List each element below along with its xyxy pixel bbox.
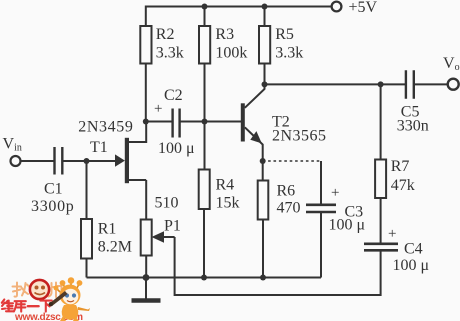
svg-text:3.3k: 3.3k [275,45,303,62]
svg-text:100 μ: 100 μ [393,257,430,274]
capacitor C2 [173,109,180,138]
wire R5 bottom lead to collector node [264,64,266,85]
label R4 value [216,176,240,211]
svg-text:100 μ: 100 μ [158,140,195,157]
label R3 value [215,26,247,62]
label +5V [349,0,378,16]
svg-text:+: + [388,226,396,242]
label C2 value [154,87,195,157]
svg-text:470: 470 [277,200,301,217]
terminal +5V [332,2,342,12]
svg-text:C2: C2 [164,87,183,104]
node R6 lower rail [260,275,266,281]
label R1 value [98,221,132,256]
svg-text:C4: C4 [404,241,423,258]
wire R3 top lead [204,7,206,26]
svg-text:47k: 47k [391,177,415,194]
label Vin [3,136,22,154]
svg-text:R5: R5 [275,26,294,43]
node top rail R3 [202,4,208,10]
node C2/R3/base [202,119,208,125]
label T1 2N3459 [78,119,133,157]
ground [132,278,161,301]
label C1 value [31,181,75,216]
svg-text:R4: R4 [216,176,235,193]
resistor R2 [140,26,151,64]
svg-text:T1: T1 [90,139,108,156]
node top rail R5 [262,4,268,10]
potentiometer P1 [141,220,152,256]
capacitor C5 [406,70,414,98]
svg-text:R6: R6 [277,183,296,200]
wire Vin to C1 [21,160,55,162]
wire lower ground rail [87,277,322,279]
wire R5 top lead [264,7,266,26]
wire R1 bottom lead [86,259,88,278]
wire R6 top lead [262,161,264,181]
wire C3 bottom lead [320,213,322,278]
svg-text:8.2M: 8.2M [98,239,132,256]
resistor R6 [258,181,269,220]
label R6 value [277,183,301,217]
wire C4 bottom to lower rail [175,237,381,295]
svg-text:2N3459: 2N3459 [78,119,133,136]
label R2 value [156,26,184,62]
label R5 value [275,26,303,62]
label Vo [443,55,460,73]
svg-text:330n: 330n [397,118,429,135]
node drain/R2/C2 [143,119,149,125]
resistor R1 [81,219,92,259]
wire T2 emitter node dashed to C3 [263,160,321,162]
svg-text:R7: R7 [391,158,410,175]
svg-text:+: + [154,101,162,117]
transistor T1 2N3459 JFET [115,122,146,184]
terminal Vo [448,79,459,90]
watermark dzsc.com logo [0,274,140,321]
node ground junction [143,274,150,281]
resistor R7 [375,160,386,199]
transistor T2 2N3565 [241,84,265,161]
resistor R3 [199,26,210,64]
svg-text:R1: R1 [98,221,117,238]
label C5 value [397,103,429,134]
wire R6 bottom lead [262,220,264,278]
label R7 value [391,158,415,194]
wire C5 to Vo [414,83,448,85]
capacitor C1 [55,147,63,175]
svg-text:Vin: Vin [3,136,22,154]
wire P1 top lead from T1 source [145,180,147,220]
wire C3 top lead [320,161,322,205]
wire R4 bottom lead [203,209,205,278]
wire gate line [63,160,117,162]
svg-text:C1: C1 [44,181,63,198]
wire collector line to C5 [265,83,406,85]
svg-text:510: 510 [155,195,179,212]
capacitor C4 [364,244,398,251]
svg-text:R3: R3 [215,26,234,43]
svg-text:100k: 100k [215,45,247,62]
svg-text:3.3k: 3.3k [156,45,184,62]
label T2 2N3565 [272,114,327,145]
wire R7 branch down [380,84,382,159]
node collector/R5 [262,81,268,87]
potentiometer P1 wiper arrow [152,231,175,243]
terminal Vin [11,156,21,166]
svg-text:3300p: 3300p [31,198,75,215]
resistor R4 [199,170,210,210]
label P1 value 510 [155,195,181,235]
wire C2 to T2 base [180,121,242,123]
svg-text:R2: R2 [156,26,175,43]
wire R3/R4 node down [204,122,206,170]
resistor R5 [259,26,270,64]
wire R2 bottom lead [145,64,147,122]
wire R3 bottom lead to node [204,64,206,122]
node emitter/R6/C3 [260,158,266,164]
svg-text:+5V: +5V [349,0,378,16]
wire R1 top lead [86,161,88,219]
svg-text:P1: P1 [164,218,181,235]
capacitor C3 [306,205,336,212]
node R4 lower rail [201,275,207,281]
svg-text:100 μ: 100 μ [329,217,366,234]
node gate/C1/R1 [84,158,90,164]
svg-text:2N3565: 2N3565 [272,128,327,145]
wire R7 to C4 [380,198,382,243]
wire signal line drain to C2 [146,121,173,123]
svg-text:Vo: Vo [443,55,460,73]
node C5/R7 [378,81,384,87]
label C3 value [329,185,366,234]
svg-text:15k: 15k [216,194,240,211]
wire +5V top rail [146,7,332,26]
wire P1 bottom lead [145,256,147,278]
svg-text:+: + [331,185,339,201]
label C4 value [388,226,429,274]
